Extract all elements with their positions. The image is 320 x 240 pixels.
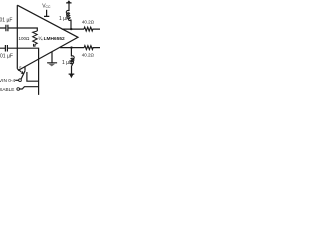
svg-text:40.2Ω: 40.2Ω (82, 52, 95, 57)
svg-text:01 µF: 01 µF (0, 53, 13, 59)
svg-text:100Ω: 100Ω (19, 36, 31, 41)
svg-text:40.2Ω: 40.2Ω (82, 20, 95, 25)
svg-text:VIN 0-4: VIN 0-4 (0, 78, 15, 84)
svg-text:DISABLE: DISABLE (0, 87, 14, 92)
svg-text:01 µF: 01 µF (0, 18, 12, 24)
svg-text:VCC: VCC (42, 4, 51, 10)
svg-text:1 µH: 1 µH (62, 60, 73, 66)
svg-text:1 µH: 1 µH (59, 16, 70, 22)
svg-text:¼ LMH6552: ¼ LMH6552 (38, 35, 65, 42)
